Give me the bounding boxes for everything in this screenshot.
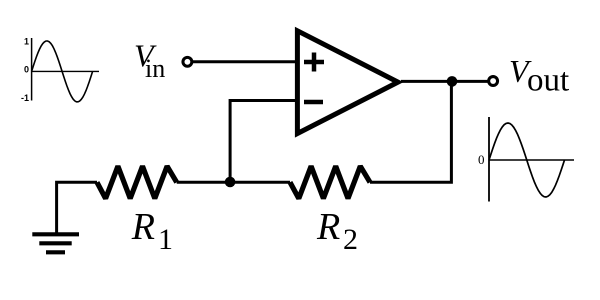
svg-text:R: R	[316, 206, 340, 248]
input waveform sine curve	[32, 41, 93, 102]
resistor R2	[290, 166, 370, 198]
ground	[32, 234, 79, 252]
wire feedback node to R2	[230, 181, 290, 184]
wire output node down to feedback through R2	[370, 81, 451, 182]
wire ground to R1	[57, 182, 97, 232]
input waveform horizontal axis	[32, 70, 99, 72]
junction dot output node	[447, 76, 458, 87]
svg-text:in: in	[145, 54, 165, 83]
svg-text:1: 1	[158, 223, 173, 256]
junction dot feedback node	[225, 177, 236, 188]
wire Vin to op-amp non-inverting input	[193, 60, 297, 63]
svg-text:R: R	[131, 206, 155, 248]
wire R1 to feedback node	[177, 181, 230, 184]
input waveform vertical axis	[31, 38, 33, 101]
wire inverting input to feedback node	[230, 101, 297, 182]
svg-text:out: out	[527, 63, 569, 99]
output waveform horizontal axis	[489, 159, 574, 161]
svg-text:-1: -1	[21, 93, 29, 103]
node Vin input terminal	[183, 57, 192, 66]
svg-text:2: 2	[343, 223, 358, 256]
node Vout output terminal	[489, 77, 498, 86]
svg-text:0: 0	[24, 65, 29, 75]
svg-text:1: 1	[24, 37, 29, 47]
op-amp U1	[297, 31, 398, 134]
output waveform vertical axis	[488, 117, 490, 202]
resistor R1	[97, 166, 177, 198]
output waveform sine curve	[489, 123, 565, 197]
wire op-amp output to Vout terminal	[401, 80, 489, 83]
svg-text:0: 0	[478, 152, 485, 167]
